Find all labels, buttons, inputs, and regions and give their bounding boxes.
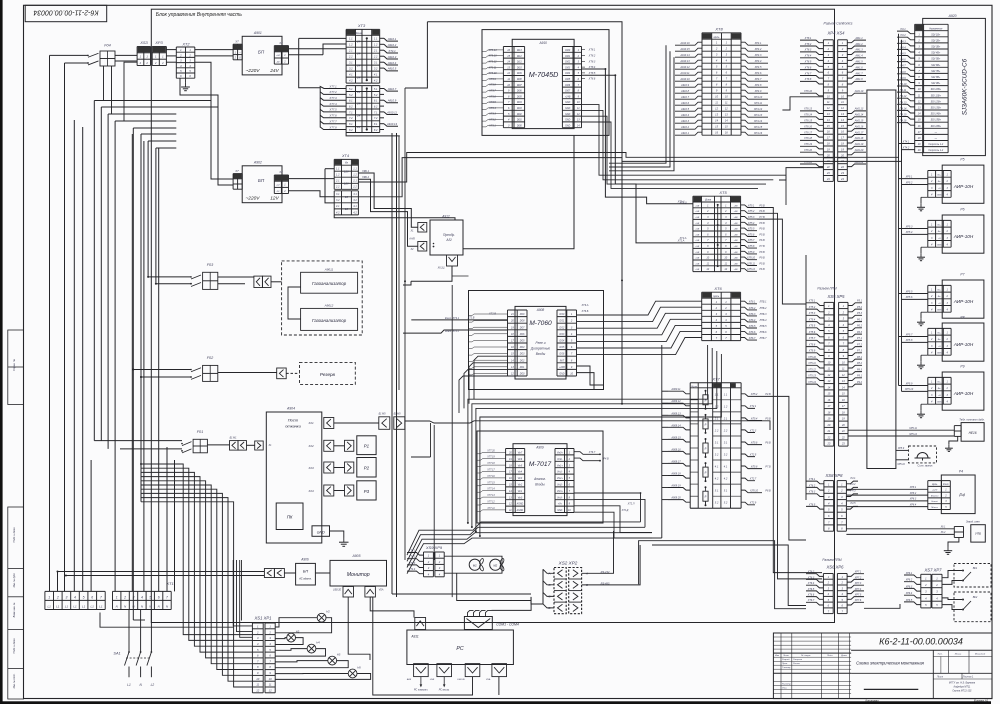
- svg-text:ХЛ5.12: ХЛ5.12: [746, 268, 756, 271]
- svg-text:ХЛ5.6: ХЛ5.6: [747, 233, 755, 236]
- svg-text:2.2: 2.2: [714, 428, 719, 432]
- svg-text:А901: А901: [253, 31, 262, 35]
- svg-text:SDI 10В+: SDI 10В+: [931, 88, 942, 91]
- svg-text:ХТ7.7: ХТ7.7: [328, 120, 337, 124]
- svg-text:ХТ7.6: ХТ7.6: [328, 114, 337, 118]
- svg-text:L1: L1: [48, 604, 52, 608]
- svg-text:ХР5.9: ХР5.9: [905, 382, 913, 385]
- svg-text:ХТ4.1: ХТ4.1: [408, 550, 416, 553]
- wires lamp Н5: [275, 661, 328, 662]
- chevrons A906 left: [264, 569, 274, 578]
- svg-text:3.2: 3.2: [349, 67, 353, 71]
- svg-text:А909.19: А909.19: [670, 485, 681, 488]
- svg-text:2.1: 2.1: [714, 416, 719, 420]
- svg-text:ХТ3.2: ХТ3.2: [488, 119, 496, 122]
- svg-text:+5В: +5В: [695, 217, 699, 219]
- svg-text:DI08: DI08: [517, 79, 523, 81]
- svg-text:DO5: DO5: [520, 341, 525, 343]
- svg-text:1.2: 1.2: [353, 174, 357, 177]
- svg-text:ХР6.1: ХР6.1: [905, 572, 913, 575]
- svg-text:1.2: 1.2: [724, 404, 728, 408]
- svg-text:ХТ3.9: ХТ3.9: [488, 78, 496, 81]
- svg-text:USB 2Е: USB 2Е: [333, 590, 342, 592]
- svg-text:22: 22: [841, 435, 845, 439]
- svg-text:Лит.: Лит.: [936, 654, 943, 656]
- svg-text:П4.14: П4.14: [900, 107, 907, 110]
- svg-text:Преобр.: Преобр.: [443, 233, 455, 237]
- svg-text:ХР8.1: ХР8.1: [909, 486, 917, 489]
- svg-text:ХТ3.10: ХТ3.10: [487, 72, 497, 75]
- svg-text:ХЛ5.7: ХЛ5.7: [747, 239, 755, 242]
- svg-text:ХТ7.13: ХТ7.13: [486, 495, 495, 497]
- svg-text:F04: F04: [104, 44, 111, 48]
- svg-text:ХТ8.15: ХТ8.15: [803, 120, 813, 123]
- svg-text:+12V: +12V: [932, 490, 938, 492]
- svg-text:5.1: 5.1: [374, 87, 378, 91]
- svg-text:ХЛ5.8: ХЛ5.8: [747, 245, 755, 248]
- svg-text:Р5.В: Р5.В: [765, 417, 771, 420]
- svg-text:GND: GND: [565, 120, 570, 122]
- svg-text:DO0: DO0: [520, 374, 525, 376]
- wires monitor down: [348, 597, 370, 660]
- svg-text:Р7.В: Р7.В: [759, 245, 765, 248]
- wire monitor feeder: [58, 571, 265, 573]
- labels M-7045D right: [582, 49, 586, 51]
- svg-text:ХР7.2: ХР7.2: [854, 576, 862, 579]
- terminal table P6: [928, 219, 951, 221]
- svg-text:2.2: 2.2: [373, 55, 378, 59]
- svg-text:DI00: DI00: [565, 50, 571, 52]
- svg-text:АМ1.19: АМ1.19: [854, 143, 864, 146]
- svg-text:4: 4: [141, 595, 143, 599]
- svg-text:22: 22: [826, 435, 830, 439]
- svg-text:24: 24: [356, 76, 361, 80]
- svg-text:А909.14: А909.14: [670, 424, 681, 427]
- svg-text:М-7017: М-7017: [529, 461, 552, 468]
- svg-text:Назад: Назад: [932, 500, 939, 503]
- wires lamp Н2: [275, 618, 317, 627]
- svg-text:ХЛ6.3: ХЛ6.3: [748, 313, 756, 316]
- svg-text:РС мышь: РС мышь: [439, 689, 450, 692]
- terminal table P8: [928, 327, 951, 329]
- svg-text:4.1: 4.1: [715, 465, 719, 469]
- wire mid risers: [398, 136, 400, 390]
- svg-text:23: 23: [826, 442, 830, 446]
- svg-text:ХТ5.4: ХТ5.4: [808, 318, 816, 321]
- svg-text:Б1 М1: Б1 М1: [230, 437, 238, 440]
- svg-text:+U: +U: [938, 303, 941, 305]
- svg-text:Vin3+: Vin3+: [557, 491, 564, 493]
- svg-text:DI03: DI03: [565, 67, 571, 69]
- svg-text:L1: L1: [65, 604, 69, 608]
- lamp Н5: [328, 656, 337, 665]
- svg-text:БП: БП: [303, 570, 308, 574]
- svg-text:АSI: АSI: [445, 238, 451, 242]
- svg-text:~220V: ~220V: [245, 196, 260, 202]
- title block: [773, 633, 992, 699]
- svg-text:Р2: Р2: [364, 466, 370, 471]
- svg-text:+5В: +5В: [734, 217, 738, 219]
- svg-text:А902: А902: [253, 161, 262, 165]
- svg-text:4.2: 4.2: [724, 477, 728, 481]
- svg-text:А910.4: А910.4: [680, 114, 690, 117]
- svg-text:Р6: Р6: [960, 208, 964, 212]
- svg-text:ХЛ5.2: ХЛ5.2: [750, 393, 758, 396]
- svg-text:Р9: Р9: [960, 365, 964, 369]
- svg-text:SDI 6В+: SDI 6В+: [931, 64, 941, 67]
- svg-text:4.1: 4.1: [353, 205, 357, 208]
- svg-text:XS1 ХР1: XS1 ХР1: [254, 615, 272, 620]
- svg-text:SDI 8В+: SDI 8В+: [931, 76, 941, 79]
- svg-text:Н6: Н6: [357, 666, 361, 670]
- svg-text:F02: F02: [207, 356, 214, 360]
- svg-text:Х23: Х23: [307, 466, 314, 470]
- svg-text:А910.7: А910.7: [680, 96, 690, 99]
- stubs XP5 right: [848, 303, 862, 306]
- svg-text:ХР5.8: ХР5.8: [905, 339, 913, 342]
- svg-text:Вх-: Вх-: [938, 296, 941, 298]
- svg-text:ХР7.1: ХР7.1: [854, 571, 862, 574]
- svg-text:10: 10: [269, 677, 272, 681]
- svg-text:Р4: Р4: [959, 493, 965, 498]
- ground A904: [330, 531, 344, 538]
- wires P4 inputs: [847, 488, 928, 490]
- svg-text:Скорость 1-2: Скорость 1-2: [928, 144, 944, 146]
- svg-text:А910.10: А910.10: [679, 78, 690, 81]
- svg-text:А909: А909: [535, 445, 544, 449]
- svg-text:ХТ7.18: ХТ7.18: [486, 463, 495, 465]
- svg-text:Х6.2Ц: Х6.2Ц: [437, 267, 445, 270]
- wire bracket left of XT3: [299, 37, 346, 39]
- svg-text:4: 4: [74, 595, 76, 599]
- svg-text:ЛПБ.6: ЛПБ.6: [759, 331, 768, 334]
- svg-text:АИР-10Н: АИР-10Н: [953, 184, 974, 189]
- svg-text:4.2: 4.2: [353, 211, 357, 214]
- svg-text:+5В: +5В: [695, 240, 699, 242]
- svg-text:П4.12: П4.12: [900, 95, 907, 98]
- svg-text:DI03: DI03: [517, 108, 523, 110]
- svg-text:Цепь: Цепь: [932, 484, 938, 486]
- svg-text:М-7045D: М-7045D: [529, 70, 559, 79]
- svg-text:ХТ7.1: ХТ7.1: [328, 84, 337, 88]
- svg-text:Р6.В: Р6.В: [759, 268, 765, 271]
- svg-text:Vin2+: Vin2+: [557, 478, 564, 480]
- svg-text:ЛПБ.2: ЛПБ.2: [759, 307, 768, 310]
- wire bus M-7017 to XS9: [407, 522, 641, 555]
- svg-text:1.2: 1.2: [715, 404, 719, 408]
- svg-text:+U: +U: [938, 346, 941, 348]
- svg-text:2.1: 2.1: [373, 49, 378, 53]
- svg-text:DO9: DO9: [520, 314, 525, 316]
- svg-text:Р4.3: Р4.3: [851, 490, 857, 493]
- wire XT3 bottom bus: [346, 133, 400, 136]
- svg-text:АМ1.13: АМ1.13: [854, 108, 864, 111]
- svg-text:6.1: 6.1: [349, 99, 353, 103]
- svg-text:Vin2: Vin2: [518, 485, 523, 487]
- wires fan loop rails: [444, 556, 502, 573]
- svg-text:ХТ5.2: ХТ5.2: [808, 306, 816, 309]
- svg-text:+5В: +5В: [695, 223, 699, 225]
- wires lamp Н6: [275, 673, 348, 675]
- block GND: [312, 526, 330, 537]
- svg-text:21: 21: [510, 313, 514, 316]
- svg-text:Р4.5: Р4.5: [851, 502, 857, 505]
- svg-text:Р6.1: Р6.1: [857, 318, 863, 321]
- svg-text:ЛПБ.4: ЛПБ.4: [759, 319, 768, 322]
- svg-text:ХТ3.5: ХТ3.5: [488, 101, 496, 104]
- svg-text:Шина: Шина: [705, 199, 712, 202]
- svg-text:1.2: 1.2: [349, 43, 353, 47]
- svg-text:XT8: XT8: [714, 27, 723, 32]
- svg-text:+24В: +24В: [565, 95, 571, 98]
- svg-text:Р8.2: Р8.2: [857, 362, 863, 365]
- terminal XT3 group2: [346, 85, 380, 87]
- svg-text:ХТ2.Ц: ХТ2.Ц: [678, 202, 686, 205]
- svg-text:3.1: 3.1: [724, 441, 728, 445]
- wire F01 chain to A904: [263, 444, 266, 446]
- svg-text:+5В: +5В: [734, 246, 738, 248]
- svg-text:АМ1.16: АМ1.16: [854, 125, 864, 128]
- wire A912 bottom down: [411, 266, 452, 281]
- svg-text:ХТ8.4: ХТ8.4: [804, 55, 812, 58]
- svg-text:А-М5: А-М5: [408, 238, 415, 241]
- svg-text:ХТ6.5: ХТ6.5: [808, 503, 816, 506]
- svg-text:ХР4.7: ХР4.7: [754, 78, 762, 81]
- svg-text:Х7: Х7: [234, 169, 239, 173]
- wire gas wires left verticals: [210, 101, 212, 180]
- svg-text:А9011: А9011: [324, 267, 334, 271]
- wire right bus v3: [757, 219, 806, 304]
- svg-text:Вх-: Вх-: [938, 231, 941, 233]
- svg-text:VGA: VGA: [379, 589, 384, 592]
- svg-text:П4.13: П4.13: [900, 101, 907, 104]
- svg-text:ХТ2.А: ХТ2.А: [679, 237, 687, 240]
- svg-text:ХТ5.8: ХТ5.8: [808, 343, 816, 346]
- svg-text:ЛПБ.5: ЛПБ.5: [759, 325, 768, 328]
- svg-text:L1: L1: [91, 604, 95, 608]
- svg-text:XS5 XP5: XS5 XP5: [827, 294, 846, 299]
- svg-text:+24В: +24В: [559, 366, 565, 369]
- svg-text:ХТ5.11: ХТ5.11: [807, 362, 816, 365]
- svg-text:XT7: XT7: [711, 377, 720, 382]
- svg-text:ХР4.1: ХР4.1: [754, 42, 762, 45]
- svg-text:Конт: Конт: [943, 484, 949, 486]
- svg-text:SDI 14В+: SDI 14В+: [931, 113, 942, 116]
- svg-text:МГТУ им. Н.Э. Баумана: МГТУ им. Н.Э. Баумана: [949, 682, 976, 685]
- svg-text:24: 24: [356, 64, 361, 68]
- svg-text:ХТ8.16: ХТ8.16: [803, 125, 813, 128]
- svg-text:А910.11: А910.11: [386, 110, 397, 114]
- svg-text:F03: F03: [207, 263, 214, 267]
- svg-text:Vin1-: Vin1-: [557, 472, 563, 474]
- svg-text:Х7: Х7: [234, 40, 239, 44]
- svg-text:24: 24: [356, 40, 361, 44]
- svg-text:ХТ6.7: ХТ6.7: [807, 599, 815, 602]
- svg-text:Vin3-: Vin3-: [557, 497, 563, 499]
- svg-text:L1: L1: [73, 604, 77, 608]
- svg-text:XT2: XT2: [182, 43, 191, 47]
- wire M-7045D loop top: [427, 22, 622, 404]
- svg-text:SDI 13В+: SDI 13В+: [931, 107, 942, 110]
- svg-text:Вперед: Вперед: [931, 495, 939, 498]
- svg-text:АМ1.4: АМ1.4: [854, 55, 863, 58]
- svg-text:DI02: DI02: [565, 62, 571, 64]
- svg-text:24: 24: [356, 90, 361, 94]
- svg-text:Цепь: Цепь: [713, 295, 719, 298]
- wires down to A902: [195, 62, 233, 179]
- fan M2: [490, 559, 501, 570]
- stubs XP6 right: [847, 574, 864, 577]
- svg-text:+5В: +5В: [695, 234, 699, 236]
- svg-text:24: 24: [356, 102, 361, 106]
- svg-text:1.1: 1.1: [336, 168, 340, 171]
- fan M1: [469, 559, 480, 570]
- terminal table P9: [928, 376, 951, 378]
- svg-text:GND: GND: [937, 310, 942, 312]
- svg-text:Р6.3: Р6.3: [857, 331, 863, 334]
- wire XP9 down: [457, 573, 531, 600]
- svg-text:А906: А906: [300, 557, 309, 561]
- svg-text:+5В: +5В: [734, 211, 738, 213]
- svg-text:4.1: 4.1: [374, 73, 378, 77]
- monitor connectors bottom: [343, 587, 354, 598]
- cable duct box: [867, 90, 896, 469]
- svg-text:ХЛ6.4: ХЛ6.4: [748, 319, 756, 322]
- svg-text:3.1: 3.1: [353, 193, 357, 196]
- enclosure Блок управления: [151, 9, 834, 622]
- wires F02 in: [133, 369, 191, 371]
- stubs XS9 left: [407, 553, 424, 556]
- wire XP4 long stubs: [782, 97, 823, 110]
- svg-text:DI06: DI06: [517, 91, 523, 93]
- wire XS1 staircase: [141, 464, 252, 635]
- svg-text:DO2: DO2: [520, 360, 525, 362]
- svg-text:Схема электрическая монтажная: Схема электрическая монтажная: [856, 661, 925, 666]
- svg-text:20: 20: [510, 320, 514, 323]
- svg-text:SDI 15В+: SDI 15В+: [931, 119, 942, 122]
- module A908 M-7060 right pins: [557, 309, 577, 311]
- svg-text:24V: 24V: [269, 68, 279, 74]
- svg-text:ХТ7.8: ХТ7.8: [328, 125, 337, 129]
- stubs XT8 left: [675, 42, 702, 45]
- svg-text:Р5: Р5: [960, 158, 964, 162]
- svg-text:11: 11: [256, 683, 259, 687]
- svg-text:Вх-: Вх-: [938, 388, 941, 390]
- svg-text:ХТ7.19: ХТ7.19: [486, 457, 495, 459]
- stubs XS8 left: [806, 481, 824, 484]
- svg-text:24: 24: [356, 125, 361, 129]
- svg-text:Аналог.: Аналог.: [533, 477, 546, 481]
- svg-text:21: 21: [826, 429, 830, 433]
- svg-text:АМ1.10: АМ1.10: [854, 90, 864, 93]
- svg-text:ХТ3.8: ХТ3.8: [488, 84, 496, 87]
- svg-text:ХТ6.6: ХТ6.6: [807, 594, 815, 597]
- wire right bus v5: [805, 255, 807, 500]
- wire P-block feeder v2: [901, 40, 903, 392]
- wires XS2 left staircase: [148, 572, 554, 574]
- svg-text:GND: GND: [565, 114, 570, 116]
- svg-text:А920: А920: [948, 14, 957, 18]
- svg-text:А910.3: А910.3: [680, 120, 690, 123]
- svg-text:DI09: DI09: [517, 73, 523, 75]
- svg-text:ХТ3.11: ХТ3.11: [488, 66, 497, 69]
- svg-text:Инв. № подл.: Инв. № подл.: [13, 673, 16, 688]
- svg-text:XT3: XT3: [357, 23, 366, 28]
- svg-text:20: 20: [826, 423, 830, 427]
- svg-text:1.1: 1.1: [715, 392, 719, 396]
- svg-text:УПБ: УПБ: [975, 532, 981, 536]
- svg-text:8.1: 8.1: [374, 122, 378, 126]
- svg-text:XS2 XP2: XS2 XP2: [558, 561, 578, 566]
- svg-text:ХТ8.5: ХТ8.5: [588, 72, 596, 75]
- svg-text:ХР6.5: ХР6.5: [905, 599, 913, 602]
- svg-text:24: 24: [356, 113, 361, 117]
- svg-text:2.1: 2.1: [335, 180, 340, 183]
- svg-text:10: 10: [256, 677, 259, 681]
- left margin attribute boxes: [8, 330, 24, 405]
- svg-text:GND: GND: [937, 195, 942, 197]
- svg-text:РС: РС: [456, 646, 463, 652]
- svg-text:Табл. контакт дубл.: Табл. контакт дубл.: [959, 418, 985, 422]
- wire right bus v1: [757, 208, 822, 573]
- wires XT2 to A901: [195, 49, 233, 51]
- svg-text:Утв.: Утв.: [782, 687, 787, 689]
- stubs XP8 right: [846, 481, 858, 484]
- svg-text:ХР4.8: ХР4.8: [754, 84, 762, 87]
- svg-text:7.2: 7.2: [374, 116, 378, 120]
- wires gas analyzers: [288, 287, 301, 319]
- svg-text:ХР5.3: ХР5.3: [905, 225, 913, 228]
- PC keyboard mouse arrows: [420, 677, 422, 686]
- svg-text:ХР5.7: ХР5.7: [905, 333, 913, 336]
- svg-text:XP4 XS4: XP4 XS4: [827, 31, 846, 36]
- svg-text:6: 6: [158, 595, 160, 599]
- svg-text:К6-2-11-00.00.00034: К6-2-11-00.00.00034: [33, 9, 98, 16]
- wires M-7017 right loop down: [574, 493, 641, 522]
- svg-text:Х6.1: Х6.1: [940, 527, 946, 529]
- wires M-7045D corner stack: [582, 105, 787, 205]
- svg-text:Р5.В: Р5.В: [759, 233, 765, 236]
- svg-text:А909.20: А909.20: [670, 497, 681, 500]
- wires PC video loop: [370, 597, 472, 695]
- svg-text:П4.2: П4.2: [900, 34, 906, 37]
- svg-text:5.2: 5.2: [724, 501, 728, 505]
- svg-text:2.2: 2.2: [348, 55, 353, 59]
- svg-text:ХР4.15: ХР4.15: [753, 126, 763, 129]
- svg-text:XT4: XT4: [341, 154, 349, 158]
- wire XP6 to XS7 link: [864, 604, 900, 608]
- svg-text:Завод. узел: Завод. узел: [966, 519, 980, 523]
- svg-text:ХТ4.2: ХТ4.2: [408, 556, 416, 559]
- svg-text:А910.11: А910.11: [679, 72, 690, 75]
- svg-text:SDI 11В+: SDI 11В+: [931, 94, 942, 97]
- svg-text:А910.13: А910.13: [679, 60, 690, 63]
- wire XS3 left drops: [124, 62, 137, 121]
- svg-text:ХЛ5.5: ХЛ5.5: [747, 228, 755, 231]
- svg-text:+5В: +5В: [734, 234, 738, 236]
- svg-text:Масса: Масса: [931, 507, 938, 509]
- svg-text:Х21: Х21: [307, 421, 314, 425]
- svg-text:ХР8.2: ХР8.2: [909, 492, 917, 495]
- svg-text:SDI 4В+: SDI 4В+: [931, 52, 941, 55]
- svg-text:А910.5: А910.5: [387, 67, 397, 71]
- svg-text:2.1: 2.1: [348, 49, 353, 53]
- svg-text:АМ1.6: АМ1.6: [854, 66, 863, 69]
- svg-text:ХТ2.5: ХТ2.5: [749, 453, 757, 456]
- svg-text:ХЛ5.4: ХЛ5.4: [750, 417, 758, 420]
- svg-text:6.2: 6.2: [374, 105, 378, 109]
- svg-text:Х22: Х22: [307, 444, 314, 448]
